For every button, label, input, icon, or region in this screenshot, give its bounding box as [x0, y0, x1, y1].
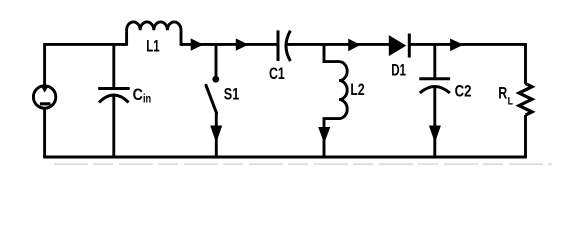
inductor L1	[127, 22, 181, 46]
capacitor Cin top plate	[98, 87, 130, 90]
svg-text:L: L	[508, 96, 514, 108]
diode D1 triangle	[389, 36, 405, 55]
svg-text:L2: L2	[350, 80, 364, 99]
wire arrow after L1	[191, 39, 202, 50]
wire left rail lower	[43, 108, 46, 158]
wire top rail segment (C1 to D1)	[287, 43, 390, 46]
diode D1 cathode bar	[408, 34, 411, 58]
switch S1 down arrow	[211, 126, 222, 141]
scan artifact faint line below bottom rail	[54, 163, 552, 165]
capacitor C2 top plate	[419, 77, 450, 80]
wire arrow before D1	[349, 39, 360, 50]
wire top rail middle segment (L1 to C1)	[181, 43, 278, 46]
wire Cin branch lower	[112, 95, 115, 157]
wire right rail upper	[524, 43, 527, 84]
source inner bottom bar mark	[40, 102, 51, 105]
capacitor C1 curved plate	[286, 31, 290, 61]
source inner top arrow mark	[41, 87, 48, 93]
switch S1 top contact dot	[212, 76, 219, 83]
inductor L2	[324, 44, 347, 157]
capacitor Cin curved plate	[99, 95, 129, 103]
switch S1 blade	[206, 85, 217, 113]
svg-text:L1: L1	[146, 37, 159, 56]
svg-text:in: in	[143, 94, 151, 106]
wire C2 branch upper	[433, 44, 436, 78]
wire top rail right segment (D1 to top-right corner)	[409, 43, 527, 46]
svg-text:C2: C2	[455, 82, 472, 101]
wire top rail left segment	[45, 43, 127, 46]
wire S1 stub to dot	[215, 44, 218, 76]
wire arrow before C1	[236, 39, 247, 50]
capacitor C2 curved plate	[420, 87, 450, 94]
svg-text:C1: C1	[269, 64, 285, 83]
capacitor C1 straight plate	[277, 30, 280, 61]
svg-text:R: R	[498, 84, 507, 103]
wire left rail upper	[43, 43, 46, 86]
wire bottom rail	[43, 156, 527, 159]
wire arrow after C2	[451, 39, 463, 50]
wire C2 branch lower	[433, 87, 436, 157]
source AC input (circle symbol)	[33, 86, 55, 108]
wire right rail lower	[524, 115, 527, 157]
capacitor C2 down arrow	[430, 126, 441, 141]
svg-text:D1: D1	[391, 60, 406, 79]
svg-text:C: C	[133, 85, 143, 104]
inductor L2 down arrow	[319, 128, 330, 143]
wire Cin branch upper	[112, 44, 115, 88]
svg-text:S1: S1	[224, 85, 239, 104]
wire S1 branch lower	[215, 112, 218, 158]
resistor RL zigzag	[519, 84, 532, 116]
